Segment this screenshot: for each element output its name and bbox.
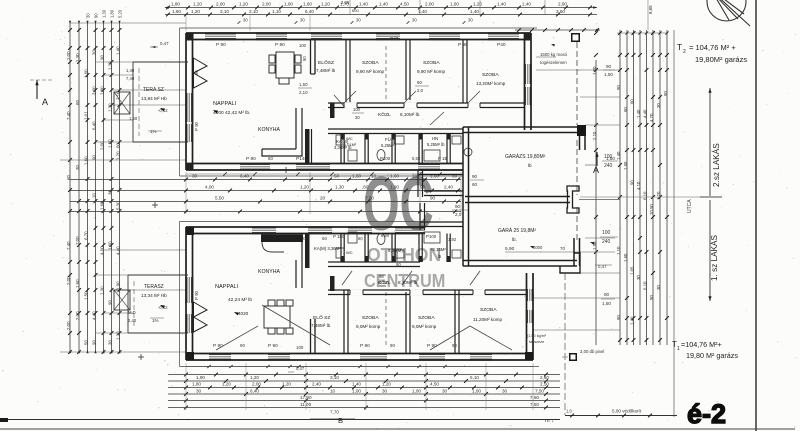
svg-text:TERASZ: TERASZ bbox=[144, 284, 164, 290]
svg-text:HN: HN bbox=[432, 136, 438, 141]
svg-text:90: 90 bbox=[606, 64, 612, 69]
lower unit windows left wall bbox=[185, 277, 187, 303]
svg-text:60: 60 bbox=[75, 100, 80, 105]
svg-text:13,34 M² Hb: 13,34 M² Hb bbox=[141, 293, 167, 298]
bottom band vertical connectors bbox=[185, 363, 187, 410]
svg-text:5,25M²: 5,25M² bbox=[381, 143, 395, 148]
svg-text:1,40: 1,40 bbox=[116, 46, 121, 55]
svg-text:ELŐSZ: ELŐSZ bbox=[318, 59, 334, 66]
svg-text:1,90: 1,90 bbox=[116, 281, 121, 290]
svg-text:30: 30 bbox=[656, 103, 661, 108]
svg-text:togészelemen: togészelemen bbox=[540, 60, 567, 65]
lower unit door triangles left wall bbox=[194, 302, 208, 317]
upper unit corridor top wall bbox=[328, 102, 525, 104]
svg-text:4,00: 4,00 bbox=[205, 185, 214, 190]
svg-text:0,47: 0,47 bbox=[296, 366, 305, 371]
svg-text:30: 30 bbox=[656, 285, 661, 290]
svg-text:NAPPALI: NAPPALI bbox=[215, 284, 239, 290]
svg-text:30: 30 bbox=[75, 165, 80, 170]
svg-text:30: 30 bbox=[108, 340, 113, 345]
svg-text:1,40: 1,40 bbox=[126, 68, 135, 73]
svg-text:5,50: 5,50 bbox=[215, 196, 224, 201]
svg-text:60: 60 bbox=[623, 107, 628, 112]
svg-text:1,10: 1,10 bbox=[616, 246, 621, 255]
svg-text:1,20: 1,20 bbox=[222, 382, 231, 387]
svg-text:lb: lb bbox=[528, 163, 532, 168]
svg-text:1,80: 1,80 bbox=[100, 86, 105, 95]
svg-text:1,20: 1,20 bbox=[382, 382, 391, 387]
svg-text:70: 70 bbox=[560, 246, 565, 251]
svg-text:1,40: 1,40 bbox=[379, 2, 388, 7]
svg-text:2,10: 2,10 bbox=[299, 90, 308, 95]
svg-text:2,00: 2,00 bbox=[252, 382, 261, 387]
svg-text:6,40: 6,40 bbox=[92, 121, 97, 130]
svg-text:5,20: 5,20 bbox=[118, 9, 123, 18]
svg-text:1,05: 1,05 bbox=[630, 266, 635, 275]
upper unit small room fixtures bbox=[336, 135, 472, 161]
svg-text:1,60: 1,60 bbox=[75, 279, 80, 288]
svg-text:1,90: 1,90 bbox=[390, 185, 399, 190]
svg-text:P 90: P 90 bbox=[360, 343, 370, 349]
svg-text:1,40: 1,40 bbox=[630, 316, 635, 325]
svg-text:1,20: 1,20 bbox=[116, 151, 121, 160]
svg-text:2,10: 2,10 bbox=[249, 9, 258, 14]
svg-text:7,70: 7,70 bbox=[330, 410, 339, 415]
svg-text:13,84 M² Hb: 13,84 M² Hb bbox=[141, 96, 167, 101]
svg-text:90: 90 bbox=[630, 180, 635, 185]
lower unit windows right wall bbox=[526, 289, 528, 301]
right chains top tick row bbox=[617, 32, 668, 34]
flat 2 extent line 2.sz LAKAS bbox=[709, 88, 711, 196]
svg-text:3,60: 3,60 bbox=[556, 9, 565, 14]
svg-text:30: 30 bbox=[355, 115, 360, 120]
svg-text:2,0: 2,0 bbox=[455, 212, 462, 217]
svg-text:KA(M): KA(M) bbox=[336, 139, 349, 144]
upper unit interior wall szoba1-szoba2 bbox=[405, 40, 407, 100]
svg-text:1,60: 1,60 bbox=[623, 253, 628, 262]
svg-text:1,50: 1,50 bbox=[602, 301, 611, 306]
svg-text:2,40: 2,40 bbox=[312, 382, 321, 387]
svg-text:NAPPALI: NAPPALI bbox=[213, 101, 237, 107]
svg-text:ELŐ SZ: ELŐ SZ bbox=[313, 314, 330, 321]
upper unit interior wall elosz-szoba bbox=[345, 40, 347, 103]
svg-text:9,0M² komp: 9,0M² komp bbox=[356, 324, 381, 329]
left dimension chain vertical lines bbox=[69, 22, 71, 352]
svg-text:7,40: 7,40 bbox=[66, 241, 71, 250]
svg-text:4,10: 4,10 bbox=[636, 181, 641, 190]
svg-text:1,40: 1,40 bbox=[497, 2, 506, 7]
bottom full-width base line bbox=[0, 428, 795, 430]
svg-text:2,00: 2,00 bbox=[341, 0, 350, 5]
svg-text:1,60: 1,60 bbox=[172, 9, 181, 14]
svg-text:1,40: 1,40 bbox=[418, 9, 427, 14]
svg-text:5,90: 5,90 bbox=[505, 246, 515, 252]
svg-text:2,40: 2,40 bbox=[128, 318, 137, 323]
svg-text:4,50: 4,50 bbox=[430, 382, 439, 387]
svg-text:KA(M) 3,36M²: KA(M) 3,36M² bbox=[314, 246, 341, 251]
svg-text:2,00: 2,00 bbox=[66, 321, 71, 330]
lower garage outer walls bbox=[462, 203, 464, 266]
upper unit dining table bbox=[269, 52, 301, 84]
shared garage wall bbox=[465, 196, 570, 198]
upper unit windows right wall bbox=[524, 64, 526, 84]
dashed property line right bottom bbox=[564, 273, 566, 415]
svg-text:1,40: 1,40 bbox=[616, 151, 621, 160]
svg-text:SZOBA: SZOBA bbox=[482, 72, 499, 78]
top dimension chain line 2 bbox=[165, 14, 597, 16]
upper unit dashed chimney line bbox=[385, 46, 387, 101]
top right hatch tick row bbox=[515, 29, 600, 31]
svg-text:7,90: 7,90 bbox=[365, 196, 374, 201]
lower unit outer wall bottom bbox=[186, 353, 533, 355]
lower unit kitchen counter bbox=[261, 235, 303, 243]
upper unit outer wall top bbox=[186, 32, 531, 34]
svg-text:1,30: 1,30 bbox=[75, 53, 80, 62]
svg-text:(1,50 kg/m²: (1,50 kg/m² bbox=[527, 334, 547, 338]
svg-text:6,40: 6,40 bbox=[250, 389, 259, 394]
svg-text:10: 10 bbox=[92, 193, 97, 198]
svg-text:-0,42: -0,42 bbox=[158, 108, 168, 113]
svg-text:90: 90 bbox=[92, 340, 97, 345]
svg-text:M,D: M,D bbox=[128, 310, 136, 315]
svg-text:4,40: 4,40 bbox=[643, 109, 648, 118]
svg-text:2,10: 2,10 bbox=[379, 280, 388, 285]
svg-text:2,0: 2,0 bbox=[417, 88, 424, 93]
tick row under upper unit wall bbox=[223, 172, 226, 175]
svg-text:2,00: 2,00 bbox=[66, 51, 71, 60]
svg-text:1,20: 1,20 bbox=[473, 2, 482, 7]
svg-text:90: 90 bbox=[302, 56, 307, 61]
svg-text:60: 60 bbox=[268, 156, 273, 161]
svg-text:8,10M² lb: 8,10M² lb bbox=[398, 280, 418, 285]
svg-text:30: 30 bbox=[636, 275, 641, 280]
dashed line storage bbox=[576, 42, 578, 125]
svg-text:4,60: 4,60 bbox=[100, 246, 105, 255]
svg-text:30: 30 bbox=[412, 18, 417, 23]
lower unit outer wall left bbox=[185, 227, 187, 360]
svg-text:1,20: 1,20 bbox=[116, 331, 121, 340]
svg-text:P 90: P 90 bbox=[194, 121, 199, 131]
svg-text:1,10: 1,10 bbox=[272, 9, 281, 14]
svg-text:90: 90 bbox=[616, 85, 621, 90]
svg-text:2,50: 2,50 bbox=[540, 382, 549, 387]
svg-text:2,40: 2,40 bbox=[444, 185, 453, 190]
svg-text:1%: 1% bbox=[150, 129, 157, 134]
svg-text:1,60: 1,60 bbox=[84, 156, 89, 165]
svg-text:1,40: 1,40 bbox=[359, 2, 368, 7]
svg-text:60: 60 bbox=[322, 236, 327, 241]
svg-text:9,90 M² komp: 9,90 M² komp bbox=[417, 69, 446, 74]
upper unit outer wall bottom bbox=[186, 163, 463, 165]
svg-text:9,90 M² komp: 9,90 M² komp bbox=[356, 69, 385, 74]
svg-text:100: 100 bbox=[602, 230, 611, 236]
svg-text:1500 kg mosó: 1500 kg mosó bbox=[540, 52, 568, 57]
svg-text:1,40: 1,40 bbox=[470, 9, 479, 14]
svg-text:P40: P40 bbox=[390, 36, 399, 42]
svg-text:4,50: 4,50 bbox=[400, 2, 409, 7]
bottom chain ticks bbox=[184, 373, 188, 377]
svg-text:SZOBA: SZOBA bbox=[362, 315, 379, 321]
svg-text:60: 60 bbox=[358, 236, 363, 241]
storage box top right bbox=[571, 33, 580, 42]
survey cross marks bbox=[138, 356, 144, 358]
svg-text:1,20: 1,20 bbox=[193, 2, 202, 7]
svg-text:42,24 M² lb: 42,24 M² lb bbox=[228, 297, 252, 303]
middle dimension chain lines between flats bbox=[70, 179, 461, 181]
upper garage outer walls bbox=[463, 126, 585, 128]
svg-text:KONYHA: KONYHA bbox=[258, 127, 280, 133]
svg-text:1,00: 1,00 bbox=[412, 389, 421, 394]
svg-text:1,20: 1,20 bbox=[191, 9, 200, 14]
svg-text:90: 90 bbox=[417, 80, 422, 85]
svg-text:1,20: 1,20 bbox=[656, 191, 661, 200]
svg-text:1,80: 1,80 bbox=[110, 9, 115, 18]
svg-text:2.sz LAKÁS: 2.sz LAKÁS bbox=[711, 143, 721, 187]
svg-text:600: 600 bbox=[352, 8, 359, 13]
svg-text:1,80: 1,80 bbox=[192, 382, 201, 387]
svg-text:0,47: 0,47 bbox=[160, 41, 169, 46]
svg-text:2,00: 2,00 bbox=[75, 311, 80, 320]
svg-text:3,60: 3,60 bbox=[92, 86, 97, 95]
section marker A right bbox=[596, 152, 598, 166]
svg-text:90: 90 bbox=[100, 55, 105, 60]
upper unit door triangles left wall bbox=[194, 58, 208, 73]
svg-text:90: 90 bbox=[472, 174, 478, 179]
svg-text:30: 30 bbox=[86, 13, 91, 18]
svg-text:20: 20 bbox=[320, 196, 326, 201]
svg-text:1,80: 1,80 bbox=[171, 2, 180, 7]
lower unit windows top wall bbox=[252, 226, 276, 228]
left margin horizontal connectors bbox=[70, 22, 186, 24]
svg-text:UTCA: UTCA bbox=[687, 199, 693, 213]
svg-text:KÖZL: KÖZL bbox=[378, 111, 391, 118]
flat 1 extent line 1.sz LAKAS bbox=[709, 200, 711, 301]
svg-text:5,30: 5,30 bbox=[116, 201, 121, 210]
svg-text:é-2: é-2 bbox=[687, 399, 726, 429]
svg-text:7,40: 7,40 bbox=[126, 76, 135, 81]
svg-text:30: 30 bbox=[502, 389, 508, 394]
svg-text:60: 60 bbox=[116, 143, 121, 148]
upper unit interior wall szoba2-szoba3 bbox=[462, 40, 464, 103]
svg-text:1,50: 1,50 bbox=[604, 72, 613, 77]
svg-text:4000 42,42 M² lb.: 4000 42,42 M² lb. bbox=[213, 110, 250, 116]
svg-text:1,10: 1,10 bbox=[108, 139, 113, 148]
lower unit dashed chimney line bbox=[385, 292, 387, 348]
svg-text:8,10M² lb.: 8,10M² lb. bbox=[400, 112, 420, 117]
svg-text:7,48M² lb: 7,48M² lb bbox=[316, 68, 336, 73]
ground line long bbox=[0, 419, 560, 421]
svg-text:90: 90 bbox=[616, 315, 621, 320]
svg-text:1,60: 1,60 bbox=[623, 161, 628, 170]
svg-text:4,40: 4,40 bbox=[92, 311, 97, 320]
left planter box upper bbox=[114, 92, 130, 114]
svg-text:P100: P100 bbox=[426, 234, 437, 239]
svg-text:3,10: 3,10 bbox=[220, 9, 229, 14]
svg-text:1,50: 1,50 bbox=[299, 82, 308, 87]
svg-text:90: 90 bbox=[94, 13, 99, 18]
svg-text:1,30: 1,30 bbox=[108, 103, 113, 112]
svg-text:1,20: 1,20 bbox=[321, 2, 330, 7]
right horizontal connectors bbox=[536, 69, 620, 71]
upper unit konyha right wall bbox=[307, 129, 309, 164]
svg-text:1,40: 1,40 bbox=[636, 109, 641, 118]
svg-text:1,92: 1,92 bbox=[448, 237, 457, 242]
lower unit door swing diagonals corridor bbox=[342, 271, 352, 285]
svg-text:100: 100 bbox=[296, 345, 304, 350]
svg-text:A: A bbox=[593, 165, 599, 175]
vertical guide line right of plan bbox=[673, 30, 675, 417]
svg-text:1,20: 1,20 bbox=[282, 382, 291, 387]
svg-text:10: 10 bbox=[330, 389, 336, 394]
upper unit corridor bottom wall bbox=[328, 128, 463, 130]
svg-text:1,40: 1,40 bbox=[522, 2, 531, 7]
svg-text:T: T bbox=[677, 42, 682, 52]
svg-text:7,40: 7,40 bbox=[66, 111, 71, 120]
svg-text:4020: 4020 bbox=[238, 311, 249, 316]
svg-text:1,60: 1,60 bbox=[303, 2, 312, 7]
svg-text:6,10: 6,10 bbox=[643, 281, 648, 290]
svg-text:2,60: 2,60 bbox=[540, 375, 549, 380]
svg-text:13,20M² komp: 13,20M² komp bbox=[476, 81, 506, 86]
svg-text:FÜ: FÜ bbox=[385, 137, 391, 142]
svg-text:lb.: lb. bbox=[512, 237, 517, 242]
lower unit corner fills bbox=[186, 227, 194, 235]
svg-text:7,50: 7,50 bbox=[530, 402, 539, 407]
svg-text:98: 98 bbox=[379, 274, 384, 279]
svg-text:1,30: 1,30 bbox=[100, 286, 105, 295]
svg-text:1,20: 1,20 bbox=[300, 185, 309, 190]
svg-text:2,10: 2,10 bbox=[592, 131, 597, 140]
svg-text:30: 30 bbox=[243, 18, 248, 23]
svg-text:1,50: 1,50 bbox=[129, 116, 138, 121]
svg-text:1,0: 1,0 bbox=[566, 409, 572, 414]
svg-text:2,00: 2,00 bbox=[262, 2, 271, 7]
svg-text:7,50: 7,50 bbox=[535, 389, 544, 394]
upper unit eaves outline bbox=[180, 27, 538, 29]
upper unit outer wall right bbox=[524, 33, 526, 130]
middle band vertical connectors bbox=[185, 172, 187, 214]
north arrow circle bbox=[707, 0, 750, 26]
svg-text:1,80: 1,80 bbox=[592, 66, 597, 75]
svg-text:2: 2 bbox=[683, 49, 686, 55]
svg-text:P 180: P 180 bbox=[333, 234, 345, 239]
left chain tick marks bbox=[68, 28, 72, 32]
svg-text:30: 30 bbox=[442, 389, 448, 394]
lower unit small room dividers bbox=[340, 234, 342, 263]
svg-text:P 90: P 90 bbox=[216, 42, 226, 48]
svg-text:5,00 védőkerít: 5,00 védőkerít bbox=[612, 409, 642, 414]
svg-text:SZOBA: SZOBA bbox=[423, 60, 440, 66]
fence line with label bbox=[565, 415, 677, 417]
svg-text:P40: P40 bbox=[497, 42, 506, 48]
svg-text:100: 100 bbox=[299, 43, 307, 48]
svg-text:90: 90 bbox=[92, 155, 97, 160]
svg-text:30: 30 bbox=[468, 18, 473, 23]
svg-text:3,00 db pixel: 3,00 db pixel bbox=[580, 349, 604, 354]
svg-text:GARÁZS 19,80M²: GARÁZS 19,80M² bbox=[505, 153, 546, 160]
svg-text:1,20: 1,20 bbox=[239, 2, 248, 7]
svg-text:50: 50 bbox=[84, 340, 89, 345]
svg-text:60: 60 bbox=[472, 182, 478, 187]
sheet border right bbox=[755, 0, 757, 431]
svg-text:6,10: 6,10 bbox=[643, 191, 648, 200]
fence posts bottom right of plan bbox=[569, 353, 577, 361]
svg-text:100: 100 bbox=[353, 107, 361, 112]
svg-text:1,30: 1,30 bbox=[335, 185, 344, 190]
svg-text:SZOBA: SZOBA bbox=[362, 60, 379, 66]
svg-text:1,00: 1,00 bbox=[284, 2, 293, 7]
svg-text:30: 30 bbox=[196, 389, 202, 394]
lower terrace outline bbox=[128, 274, 188, 276]
upper garage door dashed bbox=[576, 140, 578, 195]
svg-text:5,25M² lb: 5,25M² lb bbox=[427, 142, 445, 147]
svg-text:7,60: 7,60 bbox=[530, 395, 539, 400]
svg-text:30: 30 bbox=[356, 18, 361, 23]
lower unit interior walls rooms bbox=[343, 290, 345, 354]
svg-text:=104,76 M²+: =104,76 M²+ bbox=[681, 340, 722, 349]
svg-text:WC: WC bbox=[346, 250, 353, 255]
svg-text:P 90: P 90 bbox=[246, 156, 256, 162]
lower unit wall stub nappali-elosz bbox=[310, 319, 312, 354]
svg-text:1,50: 1,50 bbox=[84, 291, 89, 300]
upper unit kitchen step bbox=[262, 108, 302, 156]
svg-text:-0,42: -0,42 bbox=[158, 305, 168, 310]
lower unit corridor top wall bbox=[328, 261, 420, 263]
svg-text:tapszeze: tapszeze bbox=[529, 340, 544, 344]
svg-text:1%: 1% bbox=[152, 318, 159, 323]
svg-text:9,0M² komp: 9,0M² komp bbox=[412, 324, 437, 329]
svg-text:6,70: 6,70 bbox=[84, 231, 89, 240]
svg-text:1,40: 1,40 bbox=[352, 382, 361, 387]
svg-text:1,30: 1,30 bbox=[102, 9, 107, 18]
svg-text:KONYHA: KONYHA bbox=[258, 269, 280, 275]
svg-text:SZOBA: SZOBA bbox=[418, 315, 435, 321]
svg-text:100: 100 bbox=[604, 154, 613, 160]
upper unit windows left wall bbox=[185, 93, 187, 122]
svg-text:11,20M² komp: 11,20M² komp bbox=[473, 317, 502, 322]
svg-text:19,80 M² garázs: 19,80 M² garázs bbox=[686, 351, 738, 360]
svg-text:60: 60 bbox=[630, 99, 635, 104]
svg-text:1,60: 1,60 bbox=[108, 241, 113, 250]
svg-text:P 90: P 90 bbox=[268, 343, 278, 349]
svg-text:P 90: P 90 bbox=[213, 343, 223, 349]
svg-text:30: 30 bbox=[300, 18, 305, 23]
top band small vertical connectors bbox=[349, 0, 351, 15]
left planter box lower bbox=[114, 290, 130, 310]
upper unit windows bottom wall bbox=[240, 163, 270, 165]
svg-text:3,36M² lb: 3,36M² lb bbox=[334, 145, 352, 150]
svg-text:1,60: 1,60 bbox=[450, 2, 459, 7]
svg-text:1: 1 bbox=[677, 346, 680, 352]
svg-text:1,90: 1,90 bbox=[196, 375, 205, 380]
svg-text:,60: ,60 bbox=[362, 185, 369, 190]
tick row under lower unit wall bbox=[207, 365, 210, 368]
upper unit windows top wall bbox=[205, 32, 236, 34]
svg-text:90: 90 bbox=[240, 343, 245, 348]
svg-text:P 90: P 90 bbox=[194, 290, 199, 300]
svg-text:10,50: 10,50 bbox=[649, 204, 654, 215]
svg-text:P 1B: P 1B bbox=[438, 156, 448, 161]
upper terrace outline bbox=[133, 61, 188, 63]
svg-text:50: 50 bbox=[649, 295, 654, 300]
svg-text:1,00: 1,00 bbox=[352, 389, 361, 394]
svg-text:1,01: 1,01 bbox=[84, 111, 89, 120]
svg-text:90: 90 bbox=[604, 292, 610, 297]
svg-text:240: 240 bbox=[602, 239, 611, 245]
svg-text:2,00: 2,00 bbox=[216, 2, 225, 7]
lower unit eaves outline bbox=[180, 221, 427, 223]
upper unit wall stub nappali-elosz bbox=[310, 40, 312, 74]
